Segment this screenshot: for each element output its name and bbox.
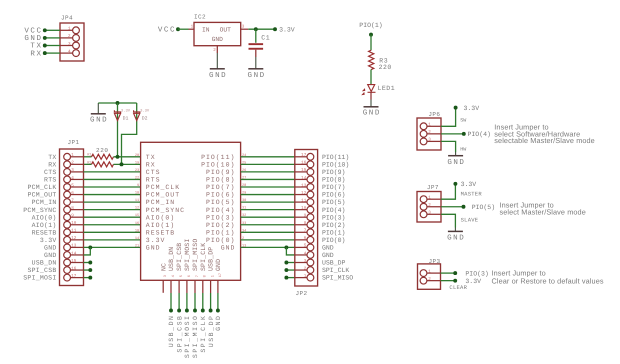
svg-text:RTS: RTS — [44, 177, 56, 184]
svg-text:VCC: VCC — [158, 26, 176, 35]
svg-text:PIO(11): PIO(11) — [322, 154, 349, 161]
resistor R3 — [369, 50, 392, 71]
wire U1 bottom to net SPI_MOSI — [186, 280, 188, 293]
node 3.3V at JP7 — [453, 182, 457, 186]
svg-text:4: 4 — [171, 275, 176, 277]
resistor R1 220 — [87, 147, 113, 159]
svg-text:GND: GND — [322, 245, 334, 252]
wire ground rail to D1 D2 — [98, 102, 136, 104]
svg-text:PIO(3): PIO(3) — [206, 214, 235, 221]
svg-text:16: 16 — [135, 221, 139, 226]
diode D1 — [114, 108, 130, 121]
svg-text:PIO(5): PIO(5) — [472, 204, 495, 211]
svg-text:GND: GND — [221, 245, 236, 252]
svg-text:CLEAR: CLEAR — [449, 284, 467, 291]
node SPI_MOSI — [185, 309, 189, 313]
svg-text:R1: R1 — [87, 153, 91, 158]
svg-text:GND: GND — [209, 71, 227, 80]
wires JP1 rows 3-13 to U1 — [84, 172, 141, 248]
svg-text:RX: RX — [48, 161, 56, 168]
wire JP2 pin4 GND loop — [286, 247, 294, 255]
svg-text:SPI_MOSI: SPI_MOSI — [184, 239, 191, 271]
svg-text:11: 11 — [301, 198, 307, 203]
svg-text:2: 2 — [68, 34, 71, 39]
svg-text:8: 8 — [203, 275, 208, 277]
wire JP1 pin1 to R1 — [84, 156, 92, 158]
net stub USB_DN at JP1 pin15 — [84, 262, 91, 264]
svg-text:GND: GND — [44, 245, 56, 252]
svg-text:9: 9 — [137, 183, 139, 188]
junction GND rows JP1 — [88, 245, 92, 249]
svg-text:3.3V: 3.3V — [146, 237, 166, 244]
svg-text:10: 10 — [71, 221, 77, 226]
svg-text:21: 21 — [135, 243, 139, 248]
svg-text:5: 5 — [179, 275, 184, 277]
ground below JP6 — [455, 152, 457, 156]
voltage regulator IC2 — [189, 14, 249, 53]
svg-text:17: 17 — [301, 153, 307, 158]
ground at diode rail — [97, 103, 99, 114]
svg-text:17: 17 — [218, 273, 223, 277]
svg-text:IN: IN — [202, 26, 210, 33]
svg-text:CTS: CTS — [44, 169, 56, 176]
svg-text:3.3V: 3.3V — [140, 108, 150, 113]
svg-text:PIO(6): PIO(6) — [322, 192, 345, 199]
svg-text:5: 5 — [304, 244, 307, 249]
node VCC — [43, 28, 47, 32]
svg-text:SLAVE: SLAVE — [461, 217, 479, 224]
svg-text:GND: GND — [363, 109, 381, 118]
svg-text:AIO(0): AIO(0) — [32, 214, 57, 221]
svg-text:MASTER: MASTER — [461, 190, 483, 197]
svg-text:PIO(8): PIO(8) — [206, 177, 235, 184]
svg-text:15: 15 — [301, 168, 307, 173]
svg-text:6: 6 — [71, 191, 74, 196]
svg-text:PIO(3): PIO(3) — [465, 271, 488, 278]
svg-text:3: 3 — [428, 138, 431, 143]
svg-text:SPI_CSB: SPI_CSB — [176, 243, 183, 271]
svg-text:R2: R2 — [87, 160, 91, 165]
svg-text:SPI_MISO: SPI_MISO — [192, 239, 199, 271]
node PIO(5) — [462, 205, 466, 209]
JP1 pin labels — [23, 154, 56, 282]
svg-text:PCM_CLK: PCM_CLK — [27, 184, 56, 191]
svg-text:GND: GND — [322, 252, 334, 259]
svg-text:GND: GND — [90, 116, 108, 125]
resistor R2 220 — [87, 160, 113, 167]
wire D1 branch to TX net — [117, 103, 119, 157]
wire R3 to LED1 — [370, 70, 372, 85]
node RX — [43, 51, 47, 55]
svg-text:PIO(0): PIO(0) — [322, 237, 345, 244]
svg-text:15: 15 — [135, 213, 139, 218]
svg-text:3: 3 — [163, 275, 168, 277]
svg-text:3.3V: 3.3V — [121, 108, 131, 113]
svg-text:1: 1 — [428, 196, 431, 201]
svg-text:3: 3 — [428, 211, 431, 216]
node VCC at IC2 input — [176, 27, 180, 31]
svg-text:220: 220 — [379, 64, 392, 71]
wires U1 PIO rows to JP2 — [241, 157, 295, 240]
node PIO(3) — [453, 271, 457, 275]
svg-text:JP4: JP4 — [61, 14, 73, 21]
svg-text:SPI_CSB: SPI_CSB — [27, 267, 56, 274]
svg-text:3: 3 — [68, 42, 71, 47]
svg-text:11: 11 — [71, 229, 77, 234]
svg-text:PCM_OUT: PCM_OUT — [27, 192, 56, 199]
svg-text:PCM_SYNC: PCM_SYNC — [23, 207, 56, 214]
svg-text:AIO(0): AIO(0) — [146, 214, 175, 221]
wire VCC to JP4 pin1 — [45, 29, 60, 31]
note JP7 — [500, 201, 586, 217]
svg-text:SPI_CLK: SPI_CLK — [322, 267, 349, 274]
pin stub NC — [162, 280, 164, 293]
node PIO(4) — [462, 132, 466, 136]
svg-text:3: 3 — [71, 168, 74, 173]
svg-text:PIO(6): PIO(6) — [206, 192, 235, 199]
node GND — [43, 36, 47, 40]
svg-text:3.3V: 3.3V — [461, 181, 477, 188]
svg-text:PIO(3): PIO(3) — [322, 214, 345, 221]
svg-text:PIO(0): PIO(0) — [206, 237, 235, 244]
wire U1 bottom to net USB_DN — [170, 280, 172, 293]
svg-text:JP3: JP3 — [429, 258, 441, 265]
svg-text:GND: GND — [447, 158, 465, 167]
wire RX to JP4 pin4 — [45, 52, 60, 54]
svg-text:7: 7 — [304, 229, 307, 234]
svg-text:SPI_MOSI: SPI_MOSI — [23, 275, 56, 282]
wire R1 to U1 TX — [114, 156, 141, 158]
svg-text:1: 1 — [304, 274, 307, 279]
svg-text:TX: TX — [48, 154, 56, 161]
svg-text:PIO(9): PIO(9) — [206, 169, 235, 176]
svg-text:LED1: LED1 — [378, 85, 396, 92]
svg-text:2: 2 — [213, 48, 216, 53]
svg-text:IC2: IC2 — [194, 14, 206, 21]
svg-text:1: 1 — [211, 275, 216, 277]
svg-text:17: 17 — [71, 274, 77, 279]
svg-text:PIO(10): PIO(10) — [322, 161, 349, 168]
svg-text:3.3V: 3.3V — [279, 26, 295, 33]
node GND — [216, 309, 220, 313]
junction D1 top — [116, 101, 120, 105]
LED LED1 — [361, 85, 395, 96]
svg-text:D1: D1 — [123, 116, 129, 122]
svg-text:19: 19 — [135, 160, 139, 165]
svg-text:select Master/Slave mode: select Master/Slave mode — [500, 208, 586, 217]
svg-text:PCM_SYNC: PCM_SYNC — [146, 207, 185, 214]
wire JP7 pin1 to 3.3V — [441, 184, 455, 199]
svg-text:13: 13 — [301, 183, 307, 188]
net stub USB_DP at JP2 pin3 — [286, 262, 294, 264]
svg-text:16: 16 — [71, 266, 77, 271]
svg-text:7: 7 — [195, 275, 200, 277]
wire JP3 pin2 to 3.3V — [441, 280, 456, 282]
svg-text:USB_DP: USB_DP — [208, 247, 215, 271]
svg-text:PIO(5): PIO(5) — [322, 199, 345, 206]
bluetooth module U1 — [135, 142, 246, 280]
svg-text:JP1: JP1 — [68, 139, 80, 146]
wire JP7 pin2 to PIO(5) — [441, 206, 464, 208]
wire GND to JP4 pin2 — [45, 37, 60, 39]
svg-text:RX: RX — [146, 161, 156, 168]
svg-text:4: 4 — [68, 49, 71, 54]
svg-text:SPI_CSB: SPI_CSB — [176, 315, 183, 353]
net stub SPI_CLK at JP2 pin2 — [286, 269, 294, 271]
wire IC2 OUT to 3.3V — [248, 28, 275, 30]
svg-text:6: 6 — [187, 275, 192, 277]
svg-text:HW: HW — [460, 146, 466, 152]
svg-text:AIO(1): AIO(1) — [32, 222, 57, 229]
svg-text:3.3V: 3.3V — [464, 105, 480, 112]
junction at C1 — [254, 27, 258, 31]
svg-text:2: 2 — [428, 277, 431, 282]
svg-text:PIO(1): PIO(1) — [206, 229, 235, 236]
net stub SPI_MOSI at JP1 pin17 — [84, 277, 91, 279]
svg-text:6: 6 — [304, 236, 307, 241]
wire U1 bottom to net SPI_MISO — [194, 280, 196, 293]
svg-text:PIO(2): PIO(2) — [322, 222, 345, 229]
node 3.3V — [273, 27, 277, 31]
svg-text:GND: GND — [248, 71, 266, 80]
ground below LED1 — [370, 100, 372, 107]
svg-text:JP2: JP2 — [296, 290, 308, 297]
connector JP4 — [60, 14, 84, 61]
svg-text:SW: SW — [460, 118, 466, 124]
svg-text:3: 3 — [304, 259, 307, 264]
node USB_DP — [209, 309, 213, 313]
svg-text:PCM_OUT: PCM_OUT — [146, 192, 180, 199]
svg-text:D2: D2 — [142, 116, 148, 122]
svg-text:1: 1 — [71, 153, 74, 158]
svg-text:9: 9 — [304, 214, 307, 219]
ground below JP7 — [454, 228, 456, 232]
svg-text:10: 10 — [301, 206, 307, 211]
wire R2 to U1 RX — [114, 163, 141, 165]
svg-text:8: 8 — [304, 221, 307, 226]
svg-text:12: 12 — [135, 206, 139, 211]
svg-text:4: 4 — [71, 176, 74, 181]
svg-text:20: 20 — [135, 153, 139, 158]
junction GND rows JP2 — [284, 245, 288, 249]
svg-text:9: 9 — [71, 214, 74, 219]
net stub SPI_CSB at JP1 pin16 — [84, 269, 91, 271]
svg-text:USB_DP: USB_DP — [208, 315, 215, 348]
wire U1 bottom to net GND — [217, 280, 219, 293]
svg-text:PIO(4): PIO(4) — [206, 207, 235, 214]
wire PIO(1) to R3 — [370, 35, 372, 51]
svg-text:NC: NC — [160, 263, 167, 271]
svg-text:23: 23 — [135, 168, 139, 173]
svg-text:OUT: OUT — [220, 26, 232, 33]
svg-text:JP6: JP6 — [428, 111, 440, 118]
svg-text:8: 8 — [71, 206, 74, 211]
junction TX/D1 — [116, 155, 120, 159]
svg-text:7: 7 — [71, 198, 74, 203]
svg-text:5: 5 — [71, 183, 74, 188]
svg-text:selectable Master/Slave mode: selectable Master/Slave mode — [494, 136, 595, 145]
wire D2 branch to RX net — [122, 103, 137, 164]
svg-text:SPI_MISO: SPI_MISO — [192, 315, 199, 359]
svg-text:RESETB: RESETB — [146, 229, 175, 236]
svg-text:RESETB: RESETB — [32, 229, 57, 236]
svg-text:4: 4 — [304, 251, 307, 256]
note JP6 — [494, 122, 595, 145]
svg-text:PIO(9): PIO(9) — [322, 169, 345, 176]
node 3.3V at JP3 — [453, 279, 457, 283]
svg-text:2: 2 — [304, 266, 307, 271]
svg-text:2: 2 — [71, 161, 74, 166]
svg-text:10: 10 — [135, 191, 139, 196]
svg-text:11: 11 — [135, 198, 139, 203]
svg-text:CTS: CTS — [146, 169, 161, 176]
svg-text:16: 16 — [301, 161, 307, 166]
svg-text:SPI_CLK: SPI_CLK — [200, 243, 207, 271]
JP2 pin labels — [322, 154, 353, 282]
svg-text:GND: GND — [146, 245, 161, 252]
svg-text:15: 15 — [71, 259, 77, 264]
node USB_DN — [169, 309, 173, 313]
svg-text:14: 14 — [301, 176, 307, 181]
svg-text:PCM_CLK: PCM_CLK — [146, 184, 180, 191]
wire JP6 pin1 to 3.3V — [441, 108, 456, 127]
svg-text:USB_DN: USB_DN — [168, 315, 175, 348]
svg-text:SPI_CLK: SPI_CLK — [200, 315, 207, 353]
connector JP3 — [418, 258, 441, 289]
wire U1 GND to JP2 — [241, 246, 295, 248]
wire LED1 to ground — [370, 92, 372, 99]
svg-text:PIO(8): PIO(8) — [322, 177, 345, 184]
wire JP6 pin2 to PIO(4) — [441, 133, 464, 135]
node SPI_CLK — [201, 309, 205, 313]
wire JP3 pin1 to PIO(3) — [441, 272, 456, 274]
connector JP2 — [295, 150, 318, 298]
svg-text:220: 220 — [96, 147, 109, 154]
svg-text:PIO(2): PIO(2) — [206, 222, 235, 229]
svg-text:USB_DN: USB_DN — [32, 260, 57, 267]
svg-text:13: 13 — [71, 244, 77, 249]
diode D2 — [134, 108, 150, 121]
node SPI_MISO — [193, 309, 197, 313]
svg-text:PIO(4): PIO(4) — [468, 131, 491, 138]
svg-text:TX: TX — [146, 154, 156, 161]
svg-text:GND: GND — [44, 252, 56, 259]
svg-text:PIO(11): PIO(11) — [201, 154, 235, 161]
wire U1 bottom to net SPI_CSB — [178, 280, 180, 293]
wire to C1 — [255, 29, 257, 43]
svg-text:Clear or Restore to default va: Clear or Restore to default values — [492, 276, 604, 285]
ground below IC2 — [216, 53, 218, 69]
svg-text:USB_DP: USB_DP — [322, 260, 346, 267]
wire JP6 pin3 to ground — [441, 141, 456, 152]
svg-text:PCM_IN: PCM_IN — [146, 199, 175, 206]
svg-text:14: 14 — [71, 251, 77, 256]
node SPI_CSB — [177, 309, 181, 313]
note JP3 — [492, 269, 604, 286]
svg-text:2: 2 — [428, 130, 431, 135]
svg-text:14: 14 — [135, 236, 139, 241]
wire JP7 pin3 to ground — [441, 214, 455, 227]
svg-text:SPI_MISO: SPI_MISO — [322, 275, 353, 282]
svg-text:GND: GND — [447, 233, 465, 242]
connector JP6 — [417, 111, 441, 150]
ground below C1 — [255, 57, 257, 69]
svg-text:GND: GND — [215, 315, 222, 331]
svg-text:C1: C1 — [261, 35, 270, 42]
svg-text:GND: GND — [212, 36, 224, 43]
svg-text:2: 2 — [428, 203, 431, 208]
svg-text:AIO(1): AIO(1) — [146, 222, 175, 229]
svg-text:12: 12 — [71, 236, 77, 241]
capacitor C1 — [249, 35, 271, 57]
svg-text:PIO(7): PIO(7) — [206, 184, 235, 191]
svg-text:12: 12 — [301, 191, 307, 196]
svg-text:RX: RX — [30, 50, 42, 58]
svg-text:GND: GND — [215, 259, 222, 271]
svg-text:PIO(1): PIO(1) — [322, 229, 345, 236]
svg-text:SPI_MOSI: SPI_MOSI — [184, 315, 191, 359]
junction RX/D2 — [120, 162, 124, 166]
svg-text:22: 22 — [135, 175, 139, 180]
svg-text:1: 1 — [428, 269, 431, 274]
svg-text:PIO(1): PIO(1) — [359, 22, 382, 29]
wire JP1 pin14 GND loop — [84, 247, 91, 255]
svg-text:3.3V: 3.3V — [465, 278, 481, 285]
connector JP1 — [60, 139, 84, 285]
svg-text:JP7: JP7 — [427, 184, 439, 191]
wire JP1 pin2 to R2 — [84, 163, 92, 165]
connector JP7 — [417, 184, 441, 222]
node 3.3V at JP6 — [454, 106, 458, 110]
svg-text:USB_DN: USB_DN — [168, 247, 175, 271]
svg-text:PIO(10): PIO(10) — [201, 161, 235, 168]
wire VCC to IC2 IN — [178, 28, 189, 30]
svg-text:PIO(5): PIO(5) — [206, 199, 235, 206]
svg-text:1: 1 — [428, 123, 431, 128]
wire TX to JP4 pin3 — [45, 45, 60, 47]
svg-text:RTS: RTS — [146, 177, 161, 184]
wire U1 bottom to net SPI_CLK — [202, 280, 204, 293]
node TX — [43, 44, 47, 48]
svg-text:18: 18 — [135, 228, 139, 233]
wire U1 bottom to net USB_DP — [210, 280, 212, 293]
svg-text:3.3V: 3.3V — [40, 237, 57, 244]
svg-text:PIO(7): PIO(7) — [322, 184, 345, 191]
svg-text:1: 1 — [68, 27, 71, 32]
svg-text:PCM_IN: PCM_IN — [32, 199, 57, 206]
svg-text:PIO(4): PIO(4) — [322, 207, 345, 214]
net stub SPI_MISO at JP2 pin1 — [286, 277, 294, 279]
